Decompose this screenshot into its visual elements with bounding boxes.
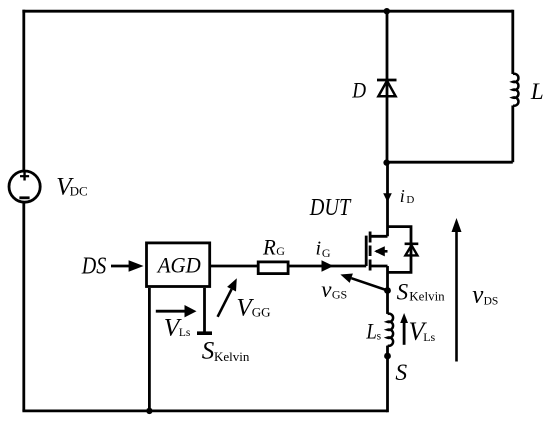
label Ls bbox=[366, 319, 382, 344]
svg-text:DS: DS bbox=[81, 253, 106, 279]
label VLs left bbox=[164, 313, 191, 342]
body diode branch bbox=[388, 227, 412, 273]
annotation arrow VLs right bbox=[403, 322, 406, 345]
wire drain from node to MOSFET bbox=[386, 162, 389, 236]
node bottom rail junction bbox=[146, 408, 152, 414]
label VLs right bbox=[409, 317, 436, 346]
channel segment middle bbox=[369, 246, 372, 257]
annotation arrow vGS bbox=[351, 278, 388, 290]
label RG bbox=[262, 235, 285, 260]
voltage source VDC bbox=[9, 171, 40, 202]
svg-text:D: D bbox=[351, 78, 366, 103]
mosfet DUT bbox=[366, 232, 387, 271]
svg-text:G: G bbox=[322, 246, 331, 260]
node S Kelvin bbox=[384, 287, 391, 294]
channel segment bottom bbox=[369, 260, 372, 271]
wire right below inductor L bbox=[511, 106, 514, 163]
label VDC bbox=[56, 174, 88, 201]
inductor Ls bbox=[388, 314, 394, 346]
node mid bbox=[383, 159, 389, 165]
svg-text:Ls: Ls bbox=[179, 327, 191, 339]
label vDS bbox=[472, 282, 498, 309]
wire source below MOSFET to S Kelvin bbox=[386, 266, 389, 314]
svg-text:GS: GS bbox=[332, 287, 347, 301]
svg-text:R: R bbox=[262, 235, 276, 260]
annotation arrow VLs left bbox=[156, 310, 186, 313]
diode D bbox=[377, 80, 397, 96]
svg-text:Kelvin: Kelvin bbox=[214, 349, 250, 364]
svg-text:Ls: Ls bbox=[423, 330, 435, 344]
svg-text:v: v bbox=[472, 282, 484, 309]
label iG bbox=[316, 237, 331, 259]
wire diode branch bbox=[386, 11, 389, 162]
svg-text:GG: GG bbox=[252, 305, 271, 320]
channel segment top bbox=[369, 232, 372, 243]
node S bbox=[384, 353, 391, 360]
wire top rail bbox=[22, 10, 512, 13]
wire R_G to gate bbox=[288, 265, 366, 268]
inductor L bbox=[513, 74, 519, 106]
wire bottom rail bbox=[22, 409, 387, 412]
annotation arrow vDS bbox=[455, 230, 458, 362]
kelvin terminal bar bbox=[197, 331, 212, 335]
label VGG bbox=[236, 295, 270, 322]
body diode bbox=[405, 244, 419, 256]
svg-text:DS: DS bbox=[484, 296, 499, 308]
svg-text:D: D bbox=[406, 194, 414, 206]
body arrow head bbox=[374, 246, 385, 256]
node top bbox=[384, 8, 390, 14]
source lead bbox=[370, 265, 388, 268]
wire left lower bbox=[22, 202, 25, 411]
DS input arrow bbox=[111, 265, 130, 268]
svg-text:DUT: DUT bbox=[309, 195, 352, 221]
body arrow line bbox=[376, 250, 388, 253]
current arrow iD bbox=[383, 193, 392, 202]
wire gate from AGD to R_G bbox=[211, 265, 258, 268]
svg-text:S: S bbox=[397, 279, 409, 304]
label vGS bbox=[321, 277, 347, 302]
svg-text:s: s bbox=[377, 330, 382, 342]
svg-text:i: i bbox=[400, 186, 405, 206]
svg-text:L: L bbox=[530, 79, 544, 104]
label S Kelvin bbox=[397, 279, 446, 304]
gate bar bbox=[365, 236, 368, 266]
svg-text:DC: DC bbox=[70, 183, 88, 198]
svg-text:Kelvin: Kelvin bbox=[409, 289, 445, 304]
svg-text:S: S bbox=[395, 360, 407, 386]
wire AGD bottom-right kelvin sense bbox=[203, 288, 206, 332]
label iD bbox=[400, 186, 415, 206]
svg-text:G: G bbox=[276, 244, 285, 258]
wire left upper bbox=[22, 10, 25, 171]
label S Kelvin lower bbox=[202, 338, 250, 365]
svg-text:L: L bbox=[366, 319, 377, 344]
AGD box bbox=[147, 243, 210, 287]
svg-text:S: S bbox=[202, 338, 215, 365]
svg-text:AGD: AGD bbox=[156, 253, 201, 278]
wire AGD bottom-left to bottom rail bbox=[148, 288, 151, 411]
svg-text:i: i bbox=[316, 237, 322, 259]
wire S Kelvin to bottom rail bbox=[386, 346, 389, 413]
wire loop bottom bbox=[387, 161, 513, 164]
svg-text:v: v bbox=[321, 277, 332, 302]
current arrow iG bbox=[322, 260, 334, 271]
wire right drop to inductor L bbox=[511, 10, 514, 74]
annotation arrow VGG bbox=[218, 289, 232, 317]
resistor RG bbox=[258, 262, 288, 274]
drain lead bbox=[370, 235, 388, 238]
